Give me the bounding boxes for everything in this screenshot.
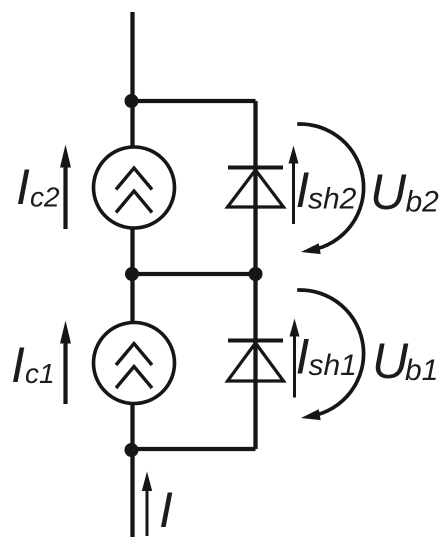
- arrow for current I_c2: [60, 145, 71, 230]
- svg-text:U: U: [370, 164, 407, 220]
- svg-text:b1: b1: [405, 354, 438, 387]
- voltage arc U_b2: [297, 124, 363, 254]
- svg-text:sh2: sh2: [308, 183, 357, 216]
- wire: left branch between source I_c2 and node B: [130, 228, 134, 323]
- wire: middle rail node B to node C: [133, 272, 256, 276]
- current source I_c1 (circle): [94, 323, 175, 404]
- arrow for current I_sh2: [289, 146, 299, 225]
- svg-text:b2: b2: [406, 186, 440, 219]
- svg-text:I: I: [11, 337, 25, 393]
- current source I_c1 chevrons: [116, 344, 152, 389]
- svg-text:U: U: [372, 333, 409, 389]
- current source I_c2 (circle): [94, 147, 175, 228]
- diode D1 triangle: [228, 343, 284, 381]
- arrow for current I_sh1: [290, 319, 300, 398]
- arrow for current I_c1: [60, 321, 71, 405]
- voltage arc U_b1: [297, 290, 363, 420]
- node D (bottom junction dot): [125, 443, 139, 457]
- wire: left branch between source I_c1 and bottom node D: [130, 404, 134, 538]
- current source I_c2 chevrons: [116, 168, 152, 213]
- wire: right branch vertical (through diode D2): [253, 101, 257, 274]
- wire: right branch vertical (through diode D1): [253, 274, 257, 449]
- svg-text:I: I: [16, 159, 30, 215]
- svg-text:c1: c1: [25, 358, 55, 389]
- node B (middle-left junction dot): [125, 267, 139, 281]
- arrow for total current I: [142, 472, 152, 537]
- diode D2 triangle: [228, 170, 284, 207]
- svg-text:I: I: [296, 329, 310, 385]
- wire: bottom rail node D to right branch: [133, 447, 256, 451]
- node A (top junction dot): [125, 94, 139, 108]
- wire: top lead into node A: [130, 12, 134, 147]
- svg-text:c2: c2: [30, 182, 60, 213]
- svg-text:sh1: sh1: [309, 349, 357, 382]
- diode D2 cathode bar: [228, 166, 283, 170]
- node C (middle-right junction dot): [249, 267, 263, 281]
- diode D1 cathode bar: [228, 339, 283, 343]
- svg-text:I: I: [159, 482, 173, 538]
- wire: top rail from node A to right branch: [133, 99, 256, 103]
